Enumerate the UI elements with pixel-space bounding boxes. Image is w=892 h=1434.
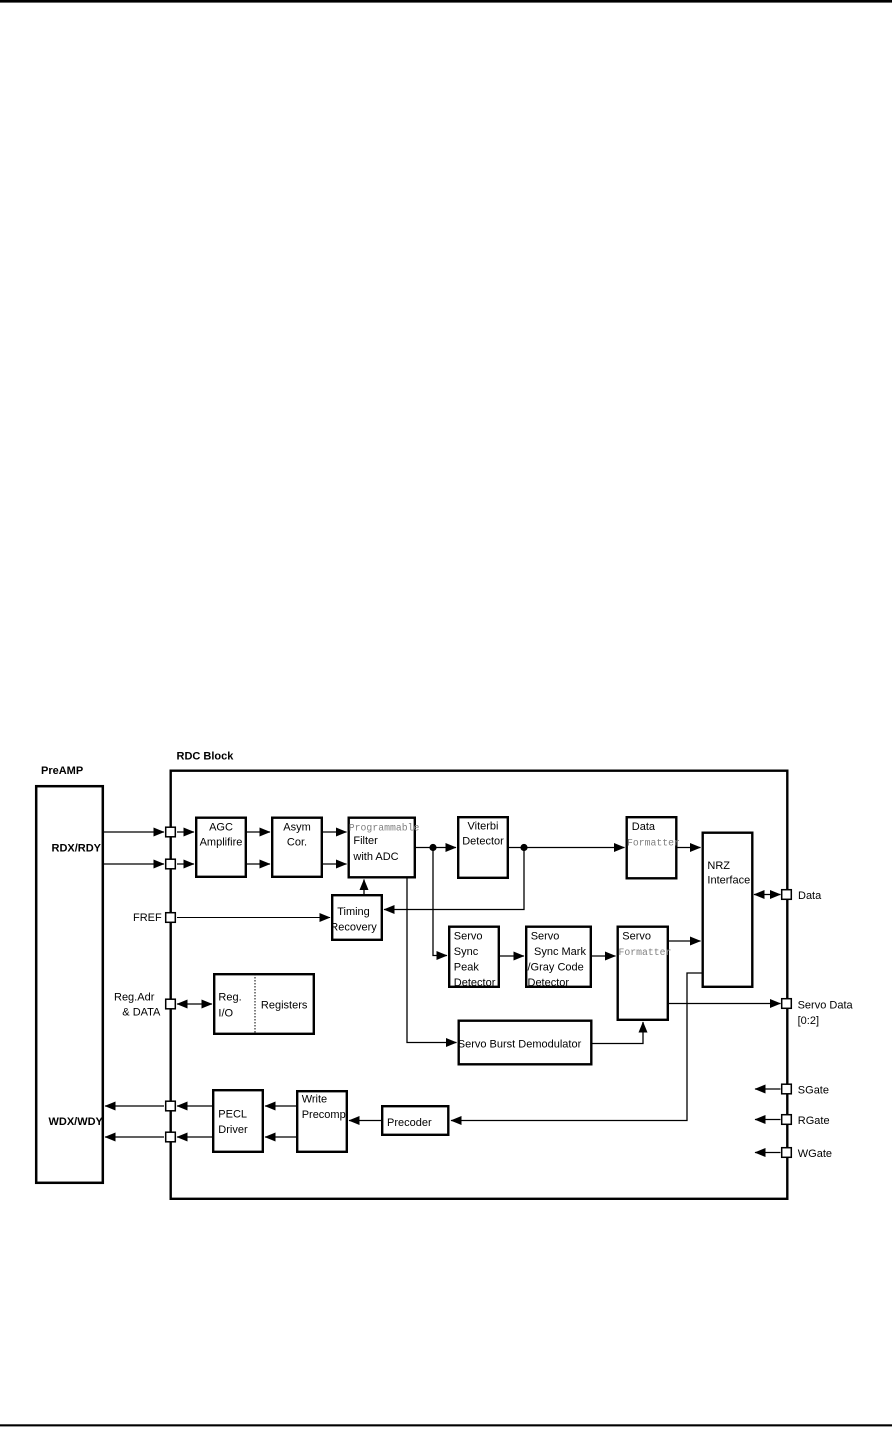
wire Viterbi to Data Formatter [509, 847, 625, 849]
wire dot B down to Timing Recovery [384, 848, 524, 910]
wire Precoder to Write Precomp [349, 1120, 381, 1122]
svg-text:Filter: Filter [353, 835, 378, 847]
wire Sync Mark Detector to Servo Formatter [592, 955, 616, 957]
block Write Precomp [297, 1091, 347, 1152]
svg-text:Interface: Interface [707, 875, 750, 887]
svg-text:WGate: WGate [798, 1148, 832, 1160]
wire NRZ to Data pin bidirectional [754, 894, 781, 896]
svg-text:Programmable: Programmable [349, 822, 420, 833]
svg-text:AGC: AGC [209, 822, 233, 834]
svg-text:with ADC: with ADC [352, 851, 398, 863]
block Asym Cor [272, 818, 322, 877]
block Data Formatter [627, 817, 677, 878]
svg-text:SGate: SGate [798, 1085, 829, 1097]
wire RDX top: PreAMP to pin [104, 831, 164, 833]
wire WGate stub [755, 1152, 781, 1154]
svg-text:Viterbi: Viterbi [468, 821, 499, 833]
pin WGate [782, 1148, 792, 1158]
svg-text:Amplifire: Amplifire [200, 836, 243, 848]
svg-text:I/O: I/O [218, 1007, 233, 1019]
wire Write Precomp to PECL bottom [265, 1136, 296, 1138]
pin FREF [166, 913, 176, 923]
svg-text:Sync: Sync [454, 946, 479, 958]
svg-text:RDX/RDY: RDX/RDY [52, 843, 102, 855]
svg-text:NRZ: NRZ [707, 860, 730, 872]
wire RDX bottom: PreAMP to pin [104, 863, 164, 865]
divider Reg I/O [254, 974, 256, 1034]
page bottom rule [0, 1424, 892, 1426]
svg-text:Precoder: Precoder [387, 1117, 432, 1129]
svg-text:[0:2]: [0:2] [798, 1015, 819, 1027]
svg-text:WDX/WDY: WDX/WDY [49, 1116, 104, 1128]
svg-text:Detector: Detector [528, 977, 570, 989]
svg-text:Servo Burst Demodulator: Servo Burst Demodulator [458, 1038, 582, 1050]
svg-text:RGate: RGate [798, 1115, 830, 1127]
wire Timing Recovery up to Filter [363, 880, 365, 895]
svg-text:Servo Data: Servo Data [798, 1000, 854, 1012]
wire dot A down to Servo Sync Peak Detector [433, 848, 447, 956]
svg-text:Formatter: Formatter [619, 947, 672, 958]
junction dot B [520, 844, 527, 851]
pin SGate [782, 1084, 792, 1094]
pin RDX top [166, 827, 176, 837]
pin Data [782, 890, 792, 900]
wire RGate stub [755, 1119, 781, 1121]
wire AGC to Asym bottom [247, 863, 270, 865]
wire SGate stub [755, 1088, 781, 1090]
wire Peak Detector to Sync Mark Detector [500, 955, 524, 957]
svg-text:/Gray Code: /Gray Code [528, 962, 584, 974]
svg-text:Servo: Servo [454, 930, 483, 942]
svg-text:Registers: Registers [261, 1000, 308, 1012]
svg-text:Reg.: Reg. [218, 992, 241, 1004]
block Precoder [382, 1106, 448, 1135]
wire pin to PreAMP top [105, 1105, 164, 1107]
page top rule [0, 0, 892, 3]
wire RDX bottom: pin to AGC [177, 863, 194, 865]
block PECL Driver [213, 1090, 263, 1152]
svg-text:Reg.Adr: Reg.Adr [114, 992, 155, 1004]
block NRZ Interface [703, 833, 753, 987]
svg-text:Precomp: Precomp [302, 1109, 346, 1121]
block Servo Sync Mark / Gray Code Detector [526, 927, 591, 987]
svg-text:Cor.: Cor. [287, 836, 307, 848]
wire NRZ down to Precoder [451, 973, 702, 1121]
wire RDX top: pin to AGC [177, 831, 194, 833]
wire Data Formatter to NRZ [678, 847, 701, 849]
svg-text:PECL: PECL [218, 1108, 247, 1120]
wire Write Precomp to PECL top [265, 1105, 296, 1107]
svg-text:Peak: Peak [454, 962, 480, 974]
svg-text:Write: Write [302, 1093, 327, 1105]
svg-text:Data: Data [798, 890, 822, 902]
block Servo Formatter [618, 927, 668, 1020]
wire Servo Formatter to Servo Data pin [669, 1003, 781, 1005]
svg-text:Data: Data [632, 821, 656, 833]
pin Servo Data [782, 999, 792, 1009]
svg-text:Driver: Driver [218, 1124, 248, 1136]
svg-text:& DATA: & DATA [122, 1007, 161, 1019]
svg-text:PreAMP: PreAMP [41, 765, 83, 777]
block Viterbi Detector [458, 817, 508, 878]
PreAMP block [36, 786, 103, 1183]
wire FREF pin to Timing Recovery [177, 917, 330, 919]
svg-text:Sync Mark: Sync Mark [534, 946, 586, 958]
svg-text:Detector: Detector [454, 977, 496, 989]
wire Filter to Viterbi [416, 847, 456, 849]
svg-text:RDC Block: RDC Block [177, 751, 235, 763]
wire PECL to pin top [177, 1105, 212, 1107]
wire Servo Burst Demodulator up to Servo Formatter [593, 1022, 644, 1044]
block Servo Burst Demodulator [459, 1021, 592, 1065]
wire Servo Formatter to NRZ [669, 940, 701, 942]
wire Filter down to Servo Burst Demodulator [407, 879, 457, 1043]
svg-text:Recovery: Recovery [330, 922, 377, 934]
svg-text:Servo: Servo [622, 930, 651, 942]
block AGC Amplifire [196, 818, 246, 877]
svg-text:Formatter: Formatter [627, 838, 680, 849]
svg-text:Timing: Timing [337, 906, 370, 918]
RDC block outline [171, 771, 788, 1199]
wire Asym to Filter top [323, 831, 347, 833]
svg-text:FREF: FREF [133, 912, 162, 924]
svg-text:Detector: Detector [462, 835, 504, 847]
wire AGC to Asym top [247, 831, 270, 833]
pin RGate [782, 1115, 792, 1125]
wire Asym to Filter bottom [323, 863, 347, 865]
wire pin to PreAMP bottom [105, 1136, 164, 1138]
block Servo Sync Peak Detector [449, 927, 499, 987]
svg-text:Servo: Servo [531, 930, 560, 942]
svg-text:Asym: Asym [283, 822, 311, 834]
pin WDX top [166, 1101, 176, 1111]
pin RDX bottom [166, 859, 176, 869]
pin WDX bottom [166, 1132, 176, 1142]
wire Reg pin to Reg I/O bidirectional [177, 1003, 212, 1005]
pin Reg.Adr [166, 999, 176, 1009]
junction dot A [429, 844, 436, 851]
block Programmable Filter with ADC [349, 818, 415, 878]
block Timing Recovery [332, 895, 382, 940]
wire PECL to pin bottom [177, 1136, 212, 1138]
block Reg I/O Registers [214, 974, 314, 1034]
